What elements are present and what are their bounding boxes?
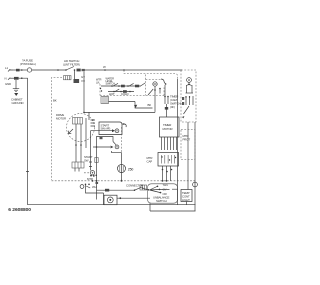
valve labels [109,92,128,96]
lamp wire down [154,86,156,112]
capsule tick down [149,203,151,211]
svg-text:MOTOR: MOTOR [56,117,66,121]
motor protector dashed box [181,130,195,160]
wire L1 to fuse [13,69,27,71]
start switch box hook [122,123,126,127]
water valve dashed box [100,84,146,96]
pump out wire [117,197,150,199]
ground symbol [13,89,19,96]
protector wires [86,184,104,204]
wire top to timer box [85,69,182,71]
wire from connector down [83,72,85,113]
svg-text:CONNECTOR: CONNECTOR [126,184,143,188]
svg-text:6 2608800: 6 2608800 [8,207,31,213]
bus hook to timer [135,102,153,109]
unbalance switch capsule [148,184,178,203]
protector blade [86,185,96,189]
svg-text:LIGHT: LIGHT [182,198,190,202]
unbalance switch fan [148,186,162,194]
temp box tick down [186,202,188,205]
timer cam label [170,95,182,110]
ground label [11,98,24,106]
valve box junction dots [100,88,102,92]
drive motor circle [118,164,126,182]
plug cap box [147,156,153,164]
light contacts [186,84,194,93]
protector blob [183,134,191,142]
wire right inner down [187,122,189,190]
svg-text:HOT: HOT [109,92,115,96]
timer connector cluster [158,153,179,167]
svg-text:(LINT FILTER): (LINT FILTER) [63,63,80,67]
lid plunger component [64,76,72,80]
svg-text:250: 250 [128,167,134,171]
cluster leads to cabinet line [162,166,173,182]
timer box lower contacts [182,96,193,118]
bus wire lower [84,111,155,113]
fan output wire [160,188,178,190]
timer motor box [160,117,180,137]
switch row 1 [101,83,145,87]
start switch box [99,122,122,135]
junction dot branch [123,69,125,71]
water level switch label [96,76,115,85]
junction dot [57,69,59,71]
motor dashed circle [67,114,95,142]
connector blob BK [16,69,23,72]
temp control light box [181,190,192,202]
wire to drive motor dashed [121,127,123,153]
start switch component [95,158,98,163]
unbalance switch connector [140,185,147,190]
wire lid switch drop [74,70,76,79]
svg-text:GND: GND [5,82,11,86]
svg-text:MTR: MTR [87,177,93,181]
motor winding box [73,118,83,125]
svg-text:N: N [5,77,7,81]
svg-text:SW: SW [84,159,89,163]
svg-text:SWITCH: SWITCH [156,199,167,203]
cabinet dashed line bottom [52,180,197,182]
svg-text:GROUND: GROUND [12,101,24,105]
thermal protector [80,184,90,189]
wire motor left leg [89,131,92,171]
temp switch dashed box [146,75,165,96]
svg-text:COLD: COLD [121,92,128,96]
lamp switch blade [148,88,161,95]
bridge wire [97,137,114,145]
timer drop wire [154,111,156,114]
lid switch blade [65,67,75,71]
switch row 2 [108,89,134,93]
svg-text:WH: WH [92,185,97,189]
wire neutral bottom [28,204,196,206]
svg-text:BK: BK [53,99,57,103]
motor terminals [91,119,96,126]
svg-text:(4F): (4F) [170,105,175,109]
svg-text:SWITCH: SWITCH [106,82,116,86]
pump box [104,195,117,205]
start switch vertical [96,144,98,200]
bus wire upper [109,101,136,103]
fuse F1 [27,68,31,72]
svg-text:BK: BK [148,103,152,107]
console boundary dashed [52,78,63,181]
console lamp [153,82,157,86]
motor internal wires [75,112,89,148]
wire right outer down [194,122,196,182]
svg-text:MOTOR: MOTOR [163,127,173,131]
drop cluster [74,75,86,83]
connector below motor [72,148,84,172]
node N terminal [5,77,11,81]
wire branch rail [124,70,178,79]
wire blob BK2 [105,189,109,192]
terminal row B [93,145,119,149]
wire label BU [100,137,103,139]
temp control lamp [193,182,198,187]
junction node W [103,65,106,71]
wire fuse to lid switch [32,69,66,71]
fuse F1 label [20,59,36,67]
bottom wire right [150,189,196,211]
svg-text:(PYROCELL): (PYROCELL) [20,62,36,66]
lamp wire down [194,187,196,211]
motor arrow [69,129,74,134]
motor feed corner [112,151,122,164]
timer motor leads [162,137,177,150]
svg-text:V: V [81,79,83,83]
junction dots on riser [83,80,85,113]
svg-text:SW (4F): SW (4F) [101,127,111,131]
lid switch connector [77,69,85,72]
timer dashed box [181,70,196,122]
start switch label [84,155,93,163]
wire neutral down left side [19,78,29,205]
wire console right [177,79,179,189]
connector block [101,97,109,104]
timer contacts [164,85,169,117]
bridge blade [113,142,116,145]
svg-text:PROT: PROT [183,138,191,142]
lid switch label [63,59,80,67]
drive motor label [56,113,66,121]
start switch box row [91,129,119,133]
lamp hook terminal [161,79,166,85]
pump feed wire [97,189,135,191]
lid lock light [187,78,192,84]
interlock contact [134,187,149,191]
small motor M [84,171,97,182]
svg-text:W: W [103,65,106,69]
arrow on hook [134,105,137,108]
neutral connector [10,77,23,80]
node L1 terminal [5,66,13,72]
ground wire [15,80,17,89]
unbalance switch label [153,196,170,204]
fan contact labels [163,183,168,196]
svg-text:CAP: CAP [147,160,153,164]
